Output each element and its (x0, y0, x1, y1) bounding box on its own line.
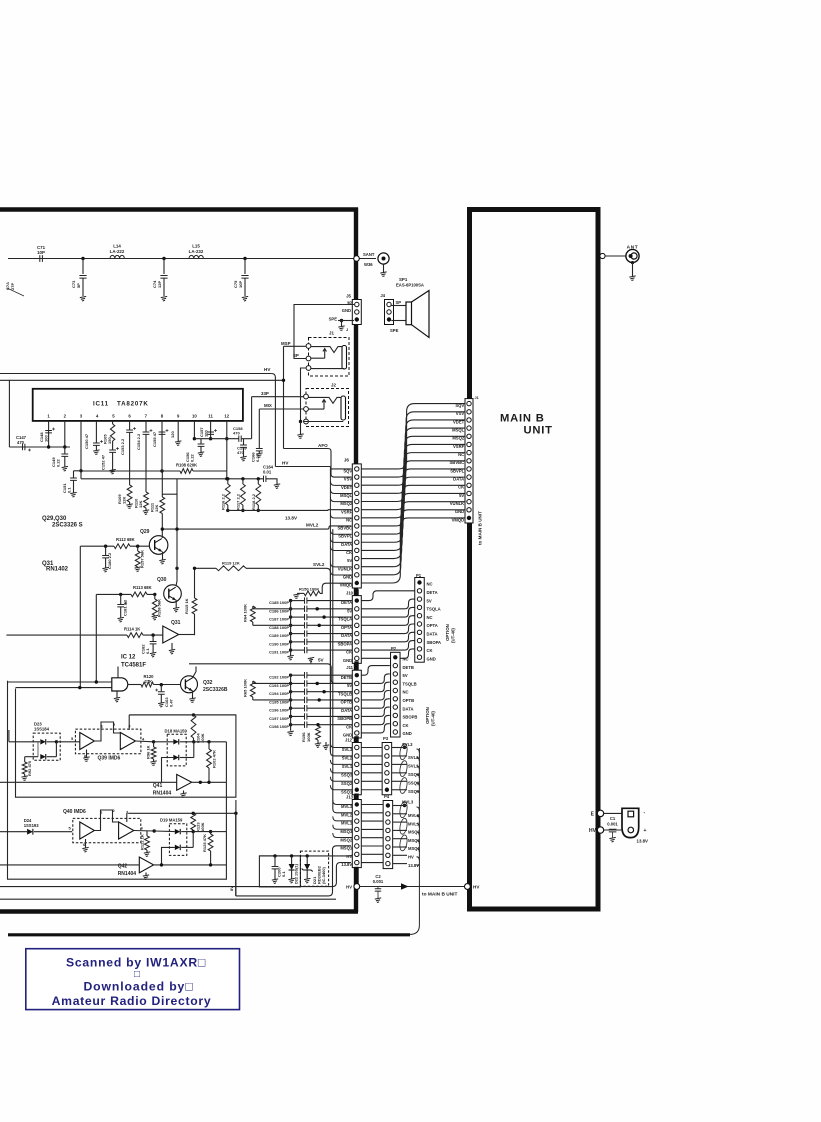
svg-text:LA-222: LA-222 (110, 249, 125, 254)
svg-text:10: 10 (192, 413, 197, 418)
svg-text:VSV: VSV (344, 477, 353, 482)
wire bundle J11 to P2 (361, 666, 390, 676)
svg-text:P3: P3 (383, 736, 389, 741)
wire: left unit bottom border (0, 909, 358, 914)
svg-text:AFO: AFO (318, 443, 328, 448)
junction node (243, 257, 246, 260)
svg-text:GND: GND (403, 731, 412, 736)
node SANT W36 (354, 256, 360, 262)
svg-text:0.47: 0.47 (168, 698, 173, 707)
svg-text:J2: J2 (331, 383, 336, 388)
ground for R110 (143, 510, 149, 515)
svg-text:MIX: MIX (264, 403, 272, 408)
svg-text:2SC3326B: 2SC3326B (203, 687, 228, 693)
svg-text:R64 100K: R64 100K (243, 604, 248, 622)
IC11 pin7 stub + C154 2.2 (145, 421, 147, 432)
wire bottom rail 13.8V (0, 863, 351, 887)
svg-text:to MAIN B UNIT: to MAIN B UNIT (478, 511, 483, 545)
svg-text:SQV: SQV (343, 469, 352, 474)
svg-text:IC 12: IC 12 (121, 655, 136, 661)
ground stub right (325, 742, 327, 745)
svg-text:100: 100 (203, 430, 208, 437)
wire 13.8V to J6 VSRF (322, 509, 352, 512)
wire: long feed line lower (0, 379, 284, 381)
svg-text:SVL2: SVL2 (313, 562, 325, 567)
capacitor C200 0.1 (273, 854, 276, 857)
wire bundle J10 to P1 (361, 591, 414, 601)
svg-text:□: □ (134, 969, 140, 980)
svg-text:MVL1: MVL1 (341, 821, 353, 826)
svg-text:100K: 100K (306, 732, 311, 742)
svg-text:D19 MA159: D19 MA159 (160, 818, 183, 823)
resistor R122 1K (146, 831, 148, 836)
ground bank1 (287, 655, 293, 660)
svg-text:NC: NC (427, 615, 433, 620)
bus bar between J11 and J12 (354, 736, 358, 742)
svg-text:SPE: SPE (329, 317, 338, 322)
svg-text:HV: HV (473, 885, 480, 890)
wire Q30 base feed vertical (95, 594, 97, 682)
IC11 pin3 stub (80, 421, 82, 479)
ground for C73 (80, 296, 86, 301)
ground for C1 (609, 837, 615, 842)
ground for C152 (109, 469, 115, 474)
wire section1 inner loop (8, 681, 227, 879)
svg-text:5V: 5V (427, 598, 432, 603)
wire rail C147 (9, 446, 70, 448)
svg-text:0.1: 0.1 (145, 648, 150, 654)
svg-text:ANT: ANT (627, 245, 639, 251)
svg-text:5V: 5V (347, 558, 352, 563)
svg-text:MVL2: MVL2 (341, 812, 353, 817)
svg-text:12K: 12K (154, 505, 159, 512)
ground for C200 (272, 879, 278, 884)
resistor R119 12K on SVL2 row (216, 566, 246, 571)
ANT connector (600, 255, 626, 257)
wire bundle J12 to P3 (361, 747, 382, 749)
svg-text:MSQ2: MSQ2 (340, 837, 353, 842)
svg-text:J1: J1 (475, 396, 479, 400)
svg-text:12K: 12K (138, 501, 143, 508)
svg-text:33P: 33P (261, 391, 269, 396)
svg-text:R115 1K: R115 1K (184, 598, 189, 614)
thick scan line above footer (8, 933, 410, 936)
svg-text:R92 470: R92 470 (27, 760, 32, 776)
wire: left unit right border (thick vertical) (354, 208, 358, 913)
wire bundle J13 to P4 (361, 804, 383, 806)
svg-text:10P: 10P (37, 250, 45, 255)
twisted pair marks P3 (399, 743, 408, 760)
svg-text:SSQ2: SSQ2 (341, 781, 353, 786)
ground at J5 SPE (338, 326, 344, 331)
svg-text:13.8V: 13.8V (285, 516, 298, 521)
wire MIX to J2 (259, 408, 303, 410)
svg-text:NC: NC (403, 657, 409, 662)
wire J5 3P to jack J1 SP (294, 305, 354, 359)
wire top rail right (129, 714, 236, 716)
svg-text:5V: 5V (403, 673, 408, 678)
ground for ANT (631, 261, 634, 264)
ground for C163 (158, 702, 164, 707)
capacitor C181 2.2 (120, 594, 122, 604)
svg-text:TSQLB: TSQLB (403, 681, 417, 686)
resistor R123 100K (191, 813, 196, 830)
IC11 pin11 stub + C157 100 (210, 421, 212, 439)
ground Q39 pin6 (86, 750, 88, 758)
wire Q32 emitter ground (192, 691, 194, 699)
svg-text:C196 100P: C196 100P (269, 708, 289, 713)
svg-text:R122 1K: R122 1K (140, 834, 145, 850)
svg-text:SBOPA: SBOPA (427, 640, 442, 645)
wire to right rail (209, 741, 226, 743)
wire Q31 output (179, 634, 195, 636)
svg-text:8V: 8V (229, 886, 234, 891)
svg-text:R113 68K: R113 68K (133, 585, 152, 590)
svg-text:R158 56K: R158 56K (157, 599, 162, 617)
svg-text:0.01: 0.01 (263, 470, 272, 475)
svg-text:R96 1K: R96 1K (146, 745, 151, 759)
svg-text:HV: HV (264, 367, 271, 372)
svg-text:C194 100P: C194 100P (269, 691, 289, 696)
IC11 pin9 stub (177, 421, 179, 441)
wire SPE to J5 (340, 319, 343, 322)
svg-text:100K: 100K (200, 822, 205, 832)
svg-text:(IC-3400): (IC-3400) (321, 866, 326, 884)
wire Q41 input (0, 781, 177, 783)
wire Q29 base row (80, 545, 150, 547)
svg-text:R118 2.2: R118 2.2 (251, 493, 256, 510)
comparator Q39 IMD6 (dashed) (75, 729, 140, 754)
svg-text:C153 2.2: C153 2.2 (120, 438, 125, 455)
IC11 pin8 stub + C155 47 (161, 421, 163, 471)
vertical option bus down to bottom rail (380, 748, 419, 934)
svg-text:HV: HV (282, 461, 289, 466)
svg-text:C191 100P: C191 100P (269, 650, 289, 655)
svg-text:R102 47K: R102 47K (212, 750, 217, 768)
svg-text:TSQLA: TSQLA (427, 607, 441, 612)
ground below gate (116, 691, 118, 698)
svg-text:SPE: SPE (390, 328, 399, 333)
svg-text:R157 56K: R157 56K (140, 550, 145, 568)
ground for C181 (118, 617, 124, 622)
svg-text:C152 47: C152 47 (101, 454, 106, 470)
wire Q32 collector to 5V rail (192, 667, 196, 679)
ground Q31 (171, 643, 173, 650)
IC11 pin6 stub + C153 2.2 (129, 421, 131, 430)
wire Q39 jumper 1-2 (94, 722, 120, 741)
svg-text:RN1402: RN1402 (46, 567, 69, 573)
bus bar between J6 and J10 (354, 589, 358, 595)
resistor R102 47K (194, 741, 209, 743)
svg-text:R65 100K: R65 100K (243, 679, 248, 697)
svg-text:L15: L15 (192, 244, 200, 249)
ground for D22 (288, 878, 294, 883)
svg-text:5V: 5V (318, 658, 325, 663)
svg-text:RN1404: RN1404 (153, 791, 172, 797)
svg-text:C154 2.2: C154 2.2 (136, 433, 141, 450)
wire SVL2 row toward J12 (vertical bus) (195, 567, 217, 569)
IC11 pin1 stub (48, 421, 50, 447)
svg-text:DETA: DETA (427, 590, 438, 595)
svg-text:SVL1: SVL1 (342, 764, 353, 769)
wire D19 lower return (162, 847, 175, 865)
svg-text:to MAIN B UNIT: to MAIN B UNIT (422, 892, 458, 898)
svg-text:J4: J4 (380, 293, 385, 298)
AND gate IC12 (112, 678, 128, 691)
wire 5V rail to J11 (189, 664, 352, 684)
MAIN B UNIT enclosure (470, 210, 599, 910)
resistor R158 56K (154, 594, 156, 599)
jack J2 internals (341, 396, 346, 420)
svg-text:NC: NC (403, 690, 409, 695)
svg-text:C187 100P: C187 100P (269, 617, 289, 622)
svg-text:MSP: MSP (281, 341, 291, 346)
svg-text:OPTB: OPTB (403, 698, 415, 703)
svg-text:DATA: DATA (403, 706, 414, 711)
left bus branch elbows J13 (333, 800, 352, 805)
ground for R156 (315, 743, 321, 748)
svg-text:W36: W36 (364, 262, 373, 267)
svg-text:UNIT: UNIT (524, 425, 553, 437)
ground for C180 (102, 567, 108, 572)
svg-text:100: 100 (44, 435, 49, 442)
svg-text:Q29,Q30: Q29,Q30 (42, 516, 67, 522)
footer credit box (26, 949, 240, 1010)
svg-text:OPTION: OPTION (445, 624, 450, 641)
svg-text:TA8207K: TA8207K (117, 401, 149, 408)
wire: left unit top border (0, 207, 358, 212)
ground for C159 (240, 456, 246, 461)
svg-text:470: 470 (17, 440, 25, 445)
svg-text:470: 470 (233, 430, 240, 435)
resistor R125 47K (193, 831, 210, 833)
svg-text:0.001: 0.001 (607, 821, 618, 826)
svg-text:C185 100P: C185 100P (269, 600, 289, 605)
wire rail y511.5 (228, 509, 322, 511)
svg-text:Q29: Q29 (140, 529, 150, 535)
svg-text:Q41: Q41 (153, 783, 163, 789)
ground for C149 (62, 466, 68, 471)
resistor R96 1K (153, 742, 155, 747)
svg-text:CK: CK (427, 648, 433, 653)
svg-text:0.1: 0.1 (67, 487, 72, 493)
svg-text:R117 2.2: R117 2.2 (235, 493, 240, 510)
wire to right rail 2 (211, 831, 227, 833)
power plug connector 13.8V (622, 808, 639, 837)
wire Q39 output (136, 740, 154, 743)
svg-text:SANT: SANT (363, 252, 375, 257)
svg-text:C192 100P: C192 100P (269, 675, 289, 680)
ground for C151 (70, 492, 76, 497)
svg-text:R150 100K: R150 100K (299, 587, 319, 592)
IC11 pin2 stub (64, 421, 66, 447)
wire rail stub to gate top (117, 667, 119, 678)
svg-text:J13: J13 (346, 794, 354, 799)
wire MVL2 row to J6 SBVBC (162, 526, 351, 529)
wire AFO (284, 449, 352, 478)
wire Q41 output (192, 781, 227, 783)
svg-text:(UT-40): (UT-40) (431, 711, 436, 726)
resistor R104 100K (191, 715, 196, 738)
svg-text:C190 100P: C190 100P (269, 641, 289, 646)
wire gate input 1 (8, 681, 112, 683)
svg-text:MAIN B: MAIN B (500, 413, 545, 425)
svg-text:RN1404: RN1404 (118, 871, 137, 877)
terminal E (597, 810, 603, 816)
jack J1 internals (342, 346, 347, 370)
svg-text:0.1: 0.1 (281, 871, 286, 877)
wire section2 top rail (128, 800, 236, 896)
ground for R109 (126, 504, 132, 509)
IC11 pin12 stub (226, 421, 228, 439)
wire bottom rail long (0, 898, 336, 900)
bank2 common bus (290, 675, 292, 731)
svg-text:SBOPB: SBOPB (403, 715, 418, 720)
wire Q42 output (154, 864, 227, 866)
svg-text:TC4581F: TC4581F (121, 663, 146, 669)
wire Q40 pin3 jumper (126, 813, 128, 822)
svg-text:SP1: SP1 (399, 277, 408, 282)
wire Q29 collector (161, 529, 163, 538)
wire: antenna filter line (8, 258, 376, 260)
wire Q29 base feed vertical (79, 546, 81, 687)
svg-text:C1: C1 (610, 816, 616, 821)
vertical bus to J13 MVL2 (333, 529, 352, 813)
svg-text:LA-232: LA-232 (189, 249, 204, 254)
svg-text:SP: SP (293, 353, 299, 358)
svg-text:DATA: DATA (427, 632, 438, 637)
terminal HV (597, 827, 603, 833)
svg-text:J5: J5 (346, 294, 351, 299)
wire SSP to J2 (252, 396, 304, 398)
svg-text:10P: 10P (238, 281, 243, 288)
svg-text:HV: HV (589, 828, 597, 834)
svg-text:SSQ3: SSQ3 (341, 772, 353, 777)
svg-text:J6: J6 (344, 458, 350, 463)
svg-text:OPTA: OPTA (427, 623, 438, 628)
svg-text:Q31: Q31 (171, 620, 181, 626)
capacitor C152 47 (112, 441, 114, 450)
svg-text:NC: NC (427, 582, 433, 587)
svg-text:R114 1K: R114 1K (124, 627, 140, 632)
svg-text:MVL2: MVL2 (306, 522, 319, 527)
wire Q29 emitter to ground (162, 552, 164, 560)
capacitor C182 0.1 (152, 635, 154, 641)
svg-text:Downloaded by□: Downloaded by□ (83, 980, 193, 994)
IC11 pin5 stub + R105 150 (112, 421, 114, 424)
svg-text:D22 1SS(1): D22 1SS(1) (295, 863, 299, 884)
svg-text:MSQ3: MSQ3 (340, 829, 353, 834)
svg-text:150: 150 (107, 437, 112, 444)
junction node (81, 257, 84, 260)
speaker SP1 symbol (406, 302, 412, 325)
svg-text:0.22: 0.22 (189, 453, 194, 462)
capacitor C163 0.47 (160, 685, 162, 692)
svg-text:(UT-40): (UT-40) (451, 628, 456, 643)
wire HV rail to J13 HV (259, 854, 352, 856)
bus bar between J12 and J13 (354, 794, 358, 800)
svg-text:L14: L14 (113, 244, 121, 249)
twisted pair marks P4 (399, 801, 408, 818)
wire MSP (284, 345, 307, 347)
wire rail y478.8 (81, 478, 263, 480)
svg-text:HV: HV (408, 855, 414, 860)
svg-text:12P: 12P (157, 281, 162, 288)
svg-text:13.8V: 13.8V (637, 839, 649, 844)
wire Q30 base row (96, 593, 155, 595)
svg-text:5P: 5P (76, 283, 81, 288)
wire rail y471 (81, 470, 162, 472)
svg-text:CK: CK (403, 723, 409, 728)
svg-text:R112 68K: R112 68K (116, 537, 135, 542)
svg-text:C197 100P: C197 100P (269, 716, 289, 721)
svg-text:P4: P4 (384, 794, 390, 799)
svg-text:R116 2.2: R116 2.2 (220, 493, 225, 510)
svg-text:GND: GND (343, 658, 352, 663)
svg-text:SVL3: SVL3 (342, 747, 353, 752)
wire Q42 input (0, 864, 139, 866)
svg-text:J12: J12 (345, 737, 353, 742)
wire D18 lower return (162, 758, 174, 783)
resistor R117 2.2 (241, 477, 244, 480)
ground for C164 (274, 484, 280, 489)
svg-text:Q32: Q32 (203, 680, 213, 686)
wire: IC11 left supply (8, 380, 10, 447)
ground for D21 (304, 878, 310, 883)
ground bank2 (287, 731, 293, 736)
ground Q42 (145, 873, 147, 876)
resistor R157 56K (137, 546, 139, 551)
svg-text:J10: J10 (346, 590, 354, 595)
svg-text:SVL2: SVL2 (342, 756, 353, 761)
wire J4 to speaker (391, 305, 406, 307)
svg-text:27P: 27P (10, 283, 15, 290)
ground Q40 pin6 (85, 839, 87, 848)
svg-text:0.001: 0.001 (373, 879, 384, 884)
ground for W36 (383, 264, 385, 272)
ground for C74 (161, 296, 167, 301)
svg-text:12K: 12K (121, 497, 126, 504)
svg-text:C181 2.2: C181 2.2 (123, 599, 128, 616)
left bus branch elbows J12 (330, 743, 352, 748)
wire J1 sleeve to J2 (301, 368, 307, 422)
bank1 common bus (290, 601, 292, 657)
ground for C2 (375, 898, 381, 903)
svg-text:HV: HV (346, 884, 352, 889)
wire Q30 collector (176, 568, 177, 586)
ground on 5V rail (310, 658, 312, 664)
ground for R122 (144, 852, 150, 857)
svg-text:GND: GND (427, 656, 436, 661)
svg-text:2SC3326 S: 2SC3326 S (52, 522, 83, 528)
wire bundle J6 to J1 (361, 404, 464, 469)
ground for R157 (135, 567, 141, 572)
svg-text:J11: J11 (346, 665, 353, 670)
svg-text:12: 12 (224, 413, 229, 418)
ground for R96 (150, 761, 156, 766)
svg-text:Scanned by IW1AXR□: Scanned by IW1AXR□ (66, 955, 206, 969)
resistor R118 2.2 (257, 477, 260, 480)
svg-text:1SS184: 1SS184 (34, 727, 50, 732)
IC11 pin10 stub (193, 421, 195, 439)
svg-text:C198 100P: C198 100P (269, 724, 289, 729)
diode D22 (290, 854, 293, 857)
wire HV to J6 SQV (275, 467, 351, 469)
op-amp IC11 TA8207K (33, 389, 243, 421)
wire Q40 output (134, 830, 154, 833)
IC11 pin4 stub + C150 47 (95, 421, 97, 443)
junction node (162, 257, 165, 260)
